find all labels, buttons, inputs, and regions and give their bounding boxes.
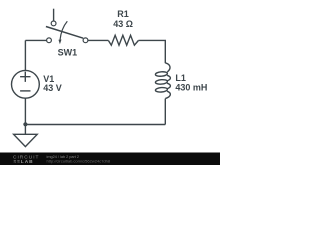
SW1 right terminal circle xyxy=(83,38,88,43)
wire: switch right terminal to resistor xyxy=(88,39,108,41)
ground stub xyxy=(24,125,26,135)
wire: bottom horizontal rail xyxy=(25,124,165,126)
ground xyxy=(14,125,38,147)
ground triangle xyxy=(14,134,38,146)
wire: right rail lower (L1 bottom to bottom rail) xyxy=(164,99,166,125)
L1 loop 1 xyxy=(155,71,167,76)
L1 bottom connector xyxy=(165,91,170,98)
SW1 blade xyxy=(46,27,83,39)
node: bottom-left junction dot xyxy=(23,122,27,126)
svg-text:43 V: 43 V xyxy=(43,83,62,93)
L1 loop 3 xyxy=(155,87,167,92)
L1 loop 2 xyxy=(155,79,167,84)
switch SW1 xyxy=(46,9,88,45)
SW1 actuator arrowhead xyxy=(59,40,62,45)
svg-text:http://circuitlab.com/c/562w24: http://circuitlab.com/c/562w24c7dh8 xyxy=(47,158,111,163)
SW1 top terminal circle xyxy=(51,21,56,26)
wire: right rail upper (R1 corner down to L1 top) xyxy=(164,40,166,63)
V1 body circle xyxy=(12,70,40,98)
inductor L1 xyxy=(155,63,170,99)
V1 plus sign xyxy=(20,72,30,82)
resistor R1 xyxy=(108,35,138,45)
SW1 left terminal circle xyxy=(47,38,52,43)
SW1 top terminal stub xyxy=(53,9,55,21)
L1 connector 1-2 xyxy=(167,75,170,81)
svg-text:≈≈LAB: ≈≈LAB xyxy=(14,159,34,165)
svg-text:R1: R1 xyxy=(117,9,129,19)
wire: left rail upper segment (corner down to V1 top) xyxy=(24,40,26,70)
wire: resistor to top-right corner xyxy=(138,39,165,42)
footer bar xyxy=(0,153,220,166)
L1 top connector xyxy=(165,63,170,72)
L1 connector 2-3 xyxy=(167,83,170,89)
svg-text:430 mH: 430 mH xyxy=(175,82,207,92)
svg-text:SW1: SW1 xyxy=(58,48,78,58)
svg-text:L1: L1 xyxy=(175,73,186,83)
voltage source V1 xyxy=(12,70,40,98)
V1 minus sign xyxy=(20,90,30,92)
SW1 actuator arrow arc xyxy=(60,21,67,40)
wire: left rail lower segment (V1 bottom to bottom node) xyxy=(24,98,26,124)
svg-text:43 Ω: 43 Ω xyxy=(113,19,133,29)
wire: top-left horizontal from left rail corner to switch left terminal xyxy=(25,39,46,41)
